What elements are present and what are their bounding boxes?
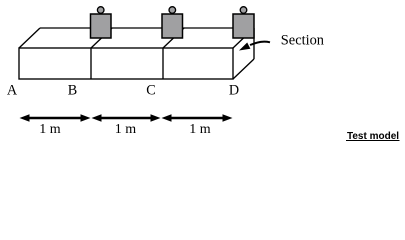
Test model underline [346,140,400,142]
arrowhead right at B [81,114,91,122]
dimension arrow C-D shaft [169,117,225,120]
svg-text:1 m: 1 m [189,122,211,137]
knob of load block 2 [169,7,176,14]
load block 1 [91,14,112,38]
left slant edge of top face [19,28,40,48]
svg-text:D: D [229,83,239,99]
svg-text:Section: Section [281,33,324,49]
Section pointer arrowhead [239,43,250,51]
arrowhead right at C [151,114,161,122]
load block 3 [233,14,254,38]
arrowhead left at B [92,114,102,122]
right slant top edge [233,28,254,48]
svg-text:1 m: 1 m [39,122,61,137]
arrowhead left at A [20,114,30,122]
dimension arrow B-C shaft [99,117,153,120]
svg-text:C: C [146,83,155,99]
dimension arrow A-B shaft [27,117,83,120]
knob of load block 3 [240,7,247,14]
top face divider line at C [163,28,184,48]
svg-text:B: B [68,83,77,99]
arrowhead left at C [162,114,172,122]
rear top edge of box [40,27,254,29]
svg-text:1 m: 1 m [115,122,137,137]
rear right vertical edge [253,28,255,59]
front face of box [19,48,233,79]
arrowhead right at D [223,114,233,122]
front divider at B [90,48,92,79]
svg-text:A: A [7,83,18,99]
top face divider line at B [91,28,112,48]
load block 2 [162,14,183,38]
right slant bottom edge [233,59,254,79]
Section pointer curve [250,42,270,45]
front divider at C [162,48,164,79]
knob of load block 1 [97,7,104,14]
